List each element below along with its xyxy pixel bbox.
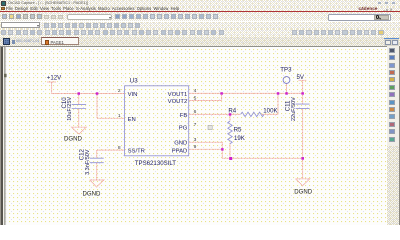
svg-text:2: 2 xyxy=(118,88,121,94)
svg-text:VIN: VIN xyxy=(128,92,138,98)
svg-text:10uF/25V: 10uF/25V xyxy=(67,97,73,121)
svg-text:3.3nF/50V: 3.3nF/50V xyxy=(85,149,91,175)
svg-text:3: 3 xyxy=(194,137,197,143)
svg-text:SS/TR: SS/TR xyxy=(128,149,145,155)
svg-text:5: 5 xyxy=(194,95,197,101)
svg-text:PG: PG xyxy=(179,126,188,132)
svg-text:9: 9 xyxy=(194,144,197,150)
svg-text:6: 6 xyxy=(194,109,197,115)
svg-text:100K: 100K xyxy=(263,108,277,115)
svg-text:PPAD: PPAD xyxy=(172,148,188,154)
svg-text:FB: FB xyxy=(180,113,188,119)
svg-text:7: 7 xyxy=(194,122,197,128)
svg-text:GND: GND xyxy=(174,141,187,147)
svg-text:U3: U3 xyxy=(130,77,138,84)
svg-text:TPS62130SILT: TPS62130SILT xyxy=(135,160,176,167)
svg-text:VOUT1: VOUT1 xyxy=(168,92,188,98)
svg-text:TP3: TP3 xyxy=(280,67,292,74)
svg-text:DGND: DGND xyxy=(294,189,313,196)
svg-text:R4: R4 xyxy=(228,108,236,115)
svg-text:22uF/50V: 22uF/50V xyxy=(291,97,297,121)
svg-text:VOUT2: VOUT2 xyxy=(168,99,188,105)
svg-text:DGND: DGND xyxy=(83,190,102,197)
svg-text:EN: EN xyxy=(128,117,136,123)
svg-text:4: 4 xyxy=(194,88,197,94)
svg-text:+12V: +12V xyxy=(47,75,62,82)
svg-text:R5: R5 xyxy=(234,126,242,133)
svg-text:8: 8 xyxy=(118,145,121,151)
svg-text:1: 1 xyxy=(118,113,121,119)
svg-text:19K: 19K xyxy=(234,135,245,142)
svg-text:5V: 5V xyxy=(297,74,305,81)
svg-text:DGND: DGND xyxy=(64,136,83,143)
